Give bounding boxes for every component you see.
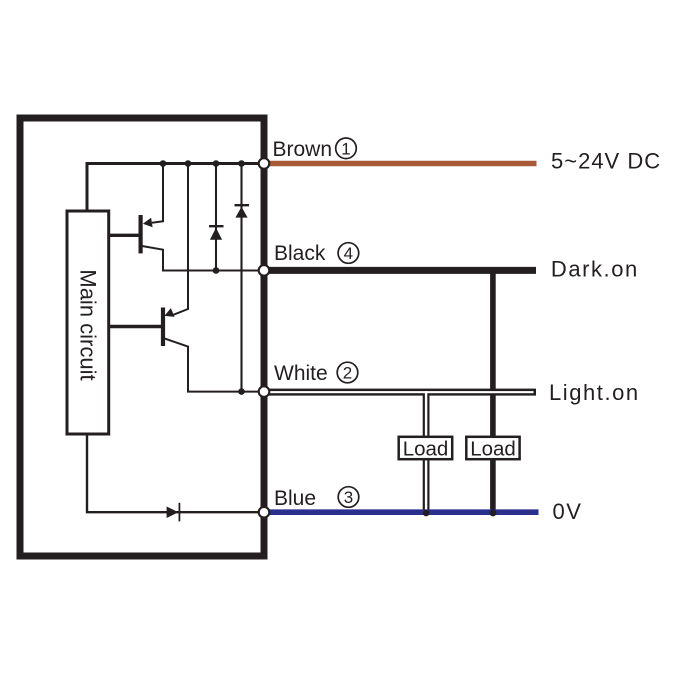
junction dot rail x241 — [238, 160, 245, 167]
wire bottom return (main circuit to blue terminal) — [87, 434, 264, 512]
junction dot rail x188 — [185, 160, 192, 167]
wire white load branch outline — [423, 392, 430, 513]
transistor Q1 emitter arrow — [143, 218, 153, 227]
junction dot black branch / 0V — [490, 510, 497, 517]
pin number 4 — [338, 243, 359, 264]
wire white load branch inner — [425, 391, 427, 510]
wire diode D1 branch — [215, 164, 217, 271]
terminal blue — [259, 507, 270, 518]
junction dot rail x216 — [213, 160, 220, 167]
terminal brown — [259, 158, 270, 169]
wire blue output (0V line) — [264, 509, 539, 515]
pin number 1 — [336, 138, 357, 159]
wire Q1 base — [109, 234, 139, 237]
pin number 3 — [338, 487, 359, 508]
junction dot D1 / black line — [213, 267, 220, 274]
wire Q1 collector to black terminal — [142, 246, 264, 271]
svg-text:Load: Load — [470, 438, 516, 461]
transistor Q2 bar — [161, 308, 165, 347]
pin number 2 — [337, 362, 358, 383]
svg-text:0V: 0V — [553, 499, 583, 524]
wire Q2 emitter from top rail — [173, 164, 188, 315]
transistor Q1 bar — [139, 215, 143, 253]
svg-text:4: 4 — [344, 244, 353, 263]
svg-text:2: 2 — [343, 364, 352, 383]
svg-text:Main circuit: Main circuit — [75, 269, 100, 380]
load L1 — [399, 437, 453, 461]
junction dot D2 / white line — [238, 388, 245, 395]
svg-text:5~24V DC: 5~24V DC — [551, 148, 661, 173]
transistor Q2 emitter arrow — [164, 308, 174, 317]
svg-text:Black: Black — [274, 242, 326, 265]
terminal white — [259, 386, 270, 397]
svg-text:White: White — [274, 362, 328, 385]
diode D1 — [209, 226, 224, 240]
main circuit block — [67, 211, 109, 434]
junction dot white branch / 0V — [423, 510, 430, 517]
svg-text:3: 3 — [344, 488, 353, 507]
wire Q2 collector to white terminal — [164, 338, 264, 391]
junction dot rail x163 — [160, 160, 167, 167]
load L2 — [466, 437, 519, 461]
wire black output (Dark.on line) — [264, 267, 536, 274]
wire Q2 base — [109, 325, 161, 328]
svg-text:Load: Load — [403, 438, 449, 461]
outer box (sensor outline) — [20, 118, 264, 556]
svg-text:Dark.on: Dark.on — [551, 257, 639, 282]
wire white output inner — [264, 391, 534, 393]
svg-text:Light.on: Light.on — [549, 380, 640, 405]
svg-text:Brown: Brown — [273, 138, 333, 161]
svg-text:Blue: Blue — [274, 487, 316, 510]
wire white output outline (Light.on line) — [264, 389, 536, 396]
diode D2 — [235, 205, 250, 217]
diode D3 (blue return line) — [167, 503, 180, 522]
wire diode D2 branch — [240, 164, 242, 392]
svg-text:1: 1 — [341, 139, 350, 158]
terminal black — [259, 265, 270, 276]
wire brown output (5~24V DC line) — [264, 161, 537, 166]
wire black load branch — [490, 270, 496, 513]
wire Q1 emitter from top rail — [152, 164, 163, 223]
wire top rail (Vcc rail to brown terminal) — [87, 164, 264, 212]
